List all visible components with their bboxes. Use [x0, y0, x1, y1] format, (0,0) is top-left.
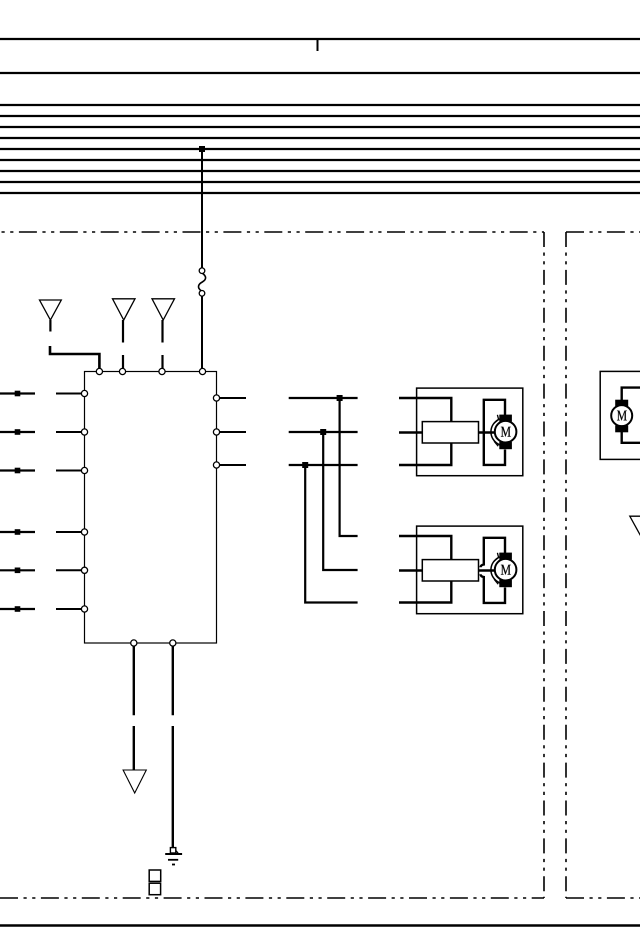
block pin circles	[81, 368, 219, 646]
wire: second horizontal rule	[0, 72, 640, 74]
motor assembly box 2	[417, 526, 523, 614]
right row 3 wire from pin	[217, 464, 247, 466]
wire: T1 stem	[49, 320, 51, 332]
left row 4 wire to pin	[56, 531, 85, 533]
bus wire 2	[0, 115, 640, 117]
wire: block bottom lead 1 upper	[133, 643, 135, 715]
middle wire row 3	[289, 464, 358, 466]
ground symbol bar 1	[165, 853, 182, 855]
shield boundary: right box top dashed edge	[566, 231, 640, 233]
left row 1 junction dot	[15, 391, 21, 397]
junction dot row 2	[320, 429, 326, 435]
wire: vertical drop 1 and turn	[340, 398, 358, 536]
wire: top horizontal rule	[0, 38, 640, 40]
ground connector square	[170, 848, 175, 853]
left row 3 stub wire	[0, 469, 35, 471]
wire: block bottom lead 2 upper	[172, 643, 174, 715]
wire: box2 top feed	[399, 536, 451, 560]
motor brush bottom box2	[499, 580, 512, 587]
driver rectangle box1	[422, 422, 478, 443]
middle wire row 1	[289, 397, 358, 399]
pin bottom 1	[131, 640, 137, 646]
motor M2	[495, 559, 517, 581]
wire: motor loop bracket box1	[484, 400, 505, 465]
pin left 6	[81, 606, 87, 612]
pin top 3	[159, 368, 165, 374]
junction dot on bus wire 5	[199, 146, 205, 152]
shield boundary: left box right dashed edge	[543, 232, 545, 898]
junction dot row 3	[302, 462, 308, 468]
left row 2 stub wire	[0, 431, 35, 433]
wire: box1 top feed	[399, 398, 451, 422]
left row 6 wire to pin	[56, 608, 85, 610]
wire: vertical into switch block pin	[201, 296, 203, 371]
rotation arrow box2	[491, 557, 500, 583]
ground symbol bar 3	[172, 864, 175, 866]
shield boundary: right box left dashed edge	[565, 232, 567, 898]
bus wire 8	[0, 181, 640, 183]
left row 1 stub wire	[0, 392, 35, 394]
left row 4 stub wire	[0, 531, 35, 533]
switch block U1	[85, 372, 217, 644]
wire: T2 lower lead	[122, 355, 124, 371]
wire: box2 bottom feed	[399, 581, 451, 603]
wire: motor loop top box3	[622, 388, 640, 401]
connector code square 2	[149, 883, 160, 895]
shield boundary: right box bottom dashed edge	[566, 897, 640, 899]
junction dot row 1	[337, 395, 343, 401]
left row 4 junction dot	[15, 529, 21, 535]
connector code square 1	[149, 870, 161, 881]
ground symbol bar 2	[168, 859, 178, 861]
pin right 2	[213, 429, 219, 435]
motor brush bottom box1	[499, 442, 512, 449]
motor brush top box3	[615, 400, 628, 407]
left row 3 junction dot	[15, 468, 21, 474]
motor M3	[611, 405, 632, 426]
left row 3 wire to pin	[56, 470, 85, 472]
wire: block bottom lead 2 lower	[172, 726, 174, 847]
pin top 2	[119, 368, 125, 374]
driver rectangle box2	[422, 560, 478, 581]
wire: vertical drop 3 and turn	[305, 465, 357, 603]
right row 2 wire from pin	[217, 431, 247, 433]
shield boundary: left box bottom dashed edge	[0, 897, 544, 899]
pin left 1	[81, 390, 87, 396]
left row 1 wire to pin	[56, 393, 85, 395]
pin left 3	[81, 467, 87, 473]
motor assembly box 3	[600, 371, 640, 459]
bus wire 5	[0, 148, 640, 150]
wire: motor loop bottom box3	[622, 431, 640, 443]
pin top 4	[199, 368, 205, 374]
bottom horizontal rule	[0, 924, 640, 926]
tick on top rule	[317, 39, 319, 51]
motor assembly box 1	[417, 388, 523, 476]
left row 5 stub wire	[0, 569, 35, 571]
wire: box1 middle feed	[399, 431, 422, 433]
wire: box1 bottom feed	[399, 443, 451, 465]
shield ground triangle T1	[40, 300, 62, 320]
bus wire 4	[0, 137, 640, 139]
bus wire 1	[0, 104, 640, 106]
left row 6 stub wire	[0, 608, 35, 610]
wire: T2 stem	[122, 320, 124, 343]
left row 2 junction dot	[15, 429, 21, 435]
bus wire 9	[0, 192, 640, 194]
wire: box2 middle feed	[399, 569, 422, 571]
right row 1 wire from pin	[217, 397, 247, 399]
connector circle upper	[199, 268, 205, 274]
motor brush top box2	[499, 553, 512, 560]
wire: motor loop bracket box2	[481, 538, 505, 603]
bus wire 7	[0, 170, 640, 172]
connector circle lower	[199, 291, 205, 297]
motor M1	[495, 421, 517, 443]
bus wire 6	[0, 159, 640, 161]
wire: block bottom lead 1 lower	[133, 726, 135, 770]
pin left 5	[81, 567, 87, 573]
shield ground triangle T3	[152, 299, 175, 320]
middle wire row 2	[289, 431, 358, 433]
wire: vertical drop from bus	[201, 149, 203, 268]
motor brush bottom box3	[615, 425, 628, 432]
pin right 1	[213, 395, 219, 401]
pin left 4	[81, 529, 87, 535]
wire: driver to motor box2	[479, 569, 496, 571]
left row 5 junction dot	[15, 568, 21, 574]
shield boundary: left box top dashed edge	[0, 231, 544, 233]
wire: vertical drop 2 and turn	[323, 432, 357, 570]
twisted wire squiggle	[199, 273, 206, 291]
wire: driver to motor box1	[479, 431, 496, 433]
wire: T3 lower lead	[161, 355, 163, 371]
wire: T1 L-shaped lead to pin	[50, 346, 99, 371]
pin right 3	[213, 462, 219, 468]
shield ground triangle T5	[123, 770, 146, 793]
left row 6 junction dot	[15, 606, 21, 612]
shield ground triangle T4 (clipped)	[630, 516, 640, 536]
pin top 1	[96, 368, 102, 374]
pin bottom 2	[170, 640, 176, 646]
shield ground triangle T2	[113, 299, 136, 320]
wire: T3 stem	[161, 320, 163, 343]
rotation arrow box1	[491, 419, 500, 445]
bus wire 3	[0, 126, 640, 128]
motor brush top box1	[499, 415, 512, 422]
left row 2 wire to pin	[56, 431, 85, 433]
left row 5 wire to pin	[56, 569, 85, 571]
pin left 2	[81, 429, 87, 435]
